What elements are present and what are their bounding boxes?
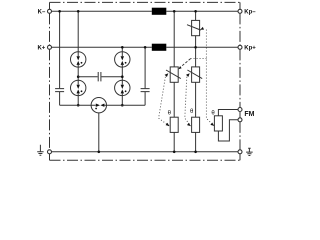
thermal fuse F6: [170, 117, 178, 132]
capacitor C2: [98, 72, 101, 81]
varistor RV3: [192, 67, 200, 82]
wire right capacitor branch: [144, 47, 146, 105]
enclosure corner stubs: [50, 2, 241, 160]
mechanical linkage branch to RV2 (dashed): [180, 59, 191, 68]
junction K+ / C3: [144, 46, 147, 49]
junction K- / C1: [58, 10, 61, 13]
terminal Kp-: [238, 9, 242, 13]
wire bottom of GDT cluster: [60, 104, 146, 106]
earth symbol right: [246, 148, 253, 155]
disconnector arrow at RV2: [165, 73, 169, 77]
svg-text:Kp+: Kp+: [244, 45, 256, 51]
capacitor C1: [55, 89, 64, 92]
varistor RV1 diagonal: [187, 25, 201, 30]
svg-text:θ: θ: [168, 110, 172, 116]
arrow linkage into F6: [166, 123, 170, 126]
gas discharge tube F4 (bottom of column 2): [115, 80, 130, 95]
mechanical linkage RV2 to F6 (dotted): [159, 77, 170, 126]
wire K+ line right: [166, 46, 238, 48]
arrow linkage into F8: [210, 123, 214, 126]
capacitor C3: [141, 89, 150, 92]
svg-text:K+: K+: [37, 45, 45, 51]
junction K- / column 1: [77, 10, 80, 13]
wire left capacitor branch: [59, 11, 61, 105]
mechanical linkage cross branch (dotted): [191, 58, 207, 60]
junction K- / varistor chain 2: [194, 10, 197, 13]
arrow linkage into F7: [187, 123, 191, 126]
wire GDT column 1: [77, 11, 79, 105]
wire K- line right: [166, 10, 238, 12]
wire capacitor row: [78, 76, 122, 78]
junction column 1 / capacitor row: [77, 75, 80, 78]
wire K- line left: [51, 10, 151, 12]
gas discharge tube F3 (top of column 2): [115, 52, 130, 67]
wire earth rail: [51, 151, 238, 153]
varistor RV2 diagonal: [166, 70, 181, 79]
varistor RV3 diagonal: [187, 70, 202, 79]
terminal FM lower: [238, 118, 242, 122]
thermal fuse F8 (FM contact): [214, 116, 222, 131]
terminal Kp+: [238, 45, 242, 49]
junction K+ / varistor chain 2: [194, 46, 197, 49]
wire F8 to FM upper: [218, 110, 238, 116]
device enclosure boundary (dash-dot frame): [50, 2, 241, 160]
varistor RV1 (between K- and K+): [192, 20, 200, 35]
terminal FM upper: [238, 108, 242, 112]
wire varistor chain 2 (K- over K+ to earth): [195, 11, 197, 152]
wire K+ line left: [51, 46, 151, 48]
svg-text:FM: FM: [244, 111, 254, 118]
wire F5 to earth rail: [98, 113, 100, 152]
mechanical linkage RV1 to F8 (dotted): [206, 30, 214, 126]
terminal K+: [48, 45, 52, 49]
earth symbol left: [37, 145, 43, 156]
junction F5 / earth rail: [98, 151, 101, 154]
disconnector arrow at RV3: [186, 73, 190, 77]
wire varistor chain 1 (K- to earth): [173, 11, 175, 152]
svg-text:θ: θ: [190, 109, 194, 115]
disconnector arrow at RV1: [200, 27, 204, 30]
junction column 2 / capacitor row: [121, 75, 124, 78]
varistor RV2: [170, 67, 178, 82]
gas discharge tube F2 (bottom of column 1): [71, 80, 86, 95]
junction chain 1 / earth rail: [173, 151, 176, 154]
terminal earth right: [238, 150, 242, 154]
wire F8 to FM lower: [218, 120, 238, 141]
gas discharge tube F1 (top of column 1): [71, 52, 86, 67]
junction column 1 / bottom wire: [77, 104, 80, 107]
thermal fuse F7: [192, 117, 200, 132]
junction K- / varistor chain 1: [173, 10, 176, 13]
inductor L1: [152, 8, 167, 15]
junction chain 2 / earth rail: [194, 151, 197, 154]
terminal K-: [48, 9, 52, 13]
svg-text:Kp–: Kp–: [244, 9, 256, 15]
junction column 2 / bottom wire: [121, 104, 124, 107]
gas discharge tube F5 (to earth): [91, 98, 106, 113]
arrow linkage at RV2 corner: [178, 66, 181, 69]
mechanical linkage RV3 to F7 (dotted): [185, 77, 191, 126]
wire GDT column 2: [121, 47, 123, 105]
svg-text:K–: K–: [38, 9, 46, 15]
terminal earth left: [48, 150, 52, 154]
junction K+ / column 2: [121, 46, 124, 49]
inductor L2: [152, 44, 167, 51]
